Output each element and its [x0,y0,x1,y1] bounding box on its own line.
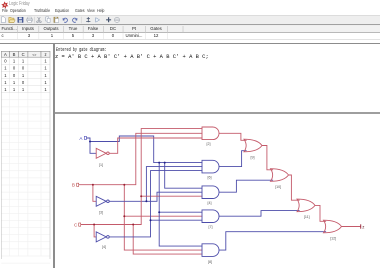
OR gate [10] [271,169,289,182]
svg-text:[1]: [1] [99,163,103,167]
toolbar [0,15,380,26]
label [11] [304,215,310,219]
circle-lines [114,17,119,22]
inverter U4 [4] (C') [96,232,109,242]
data grid [1,57,50,92]
node C-junction down-branch [132,224,134,226]
output z connector [361,224,365,229]
wire AND4 out to OR10 bottom [219,180,273,192]
node B-junction AND7 branch [123,215,125,217]
main area top border [0,43,380,44]
node A-junction branch2 [164,162,166,164]
wire A branch1 to AND7 in1 and AND8 in1 [159,163,202,247]
svg-text:[3]: [3] [99,211,103,215]
data [4,59,47,92]
wire A rail to AND6 in1 [87,136,203,163]
node B-junction down-branch [123,184,125,186]
svg-text:[2]: [2] [207,142,211,146]
inverter U1 [1] (A') [96,148,109,158]
node C'-junction AND7 branch [150,219,152,221]
wire B rail riser to AND2 in2 [79,133,203,184]
wire B' to AND4 in2 [109,192,202,201]
label [10] [275,185,281,189]
play [96,18,100,23]
undo [63,18,67,22]
svg-text:[12]: [12] [330,236,336,240]
wire OR9 out to OR10 top [262,146,273,170]
node A-junction branch1 [158,162,160,164]
AND gate [4] AB'C [202,186,219,199]
wire C' to riser and AND6 in3 [109,171,202,237]
wire A branch2 to AND4 in1 [165,163,203,189]
label [3] [99,211,103,215]
svg-text:A: A [79,136,83,141]
vertical divider between truth table pane and right pane [53,44,55,268]
wire B branch to inverter U3 input [93,185,96,202]
paste [54,17,58,22]
svg-text:[10]: [10] [275,185,281,189]
menu bar [2,10,8,15]
wire AND7 out to OR11 bottom [219,211,300,217]
title bar [0,0,380,9]
wire A branch to inverter U1 input [90,142,96,154]
AND gate [7] ABC' [202,210,219,223]
svg-text:[9]: [9] [251,156,255,160]
OR gate [12] [324,220,342,233]
copy [46,17,50,23]
AND gate [2] A'BC [202,127,219,140]
svg-text:[8]: [8] [208,260,212,264]
splitter line [55,112,380,114]
wire C' branch to AND7 in3 [151,219,203,221]
right pane text [56,48,106,53]
open [9,17,14,22]
node B-junction inverter branch [92,184,94,186]
print [27,19,33,22]
svg-text:[4]: [4] [102,245,106,249]
wire OR11 out to OR12 top [315,205,326,221]
node C-junction AND4 branch [140,195,142,197]
inverter U3 [3] (B') [96,196,109,206]
function grid value row [2,34,4,38]
svg-text:B: B [72,183,75,188]
svg-text:[7]: [7] [209,225,213,229]
header buttons [1,51,50,57]
wire AND2 out to OR9 top [219,133,247,140]
save [18,17,23,22]
label [9] [251,156,255,160]
wire A' from U1 to AND2 in3 [109,138,202,153]
input B [72,183,79,188]
separators [35,17,82,23]
OR gate [11] [297,199,315,212]
label [1] [99,163,103,167]
label [7] [209,225,213,229]
wire B down-branch to AND7 in2 and AND8 in2 [124,185,202,250]
truth table [0,0,54,268]
svg-text:z: z [362,225,364,230]
wire C down-branch to AND8 in3 [133,225,202,255]
label [6] [208,175,212,179]
node C-junction inverter branch [93,224,95,226]
wire OR10 out to OR11 top [289,175,300,200]
wire C rail riser to AND2 in1 [81,129,203,225]
gate-tool [86,17,90,22]
cut [37,17,42,23]
AND gate [6] AB'C' [202,160,219,173]
label [8] [208,260,212,264]
node A-junction AND7 in1 [158,211,160,213]
OR gate [9] [244,139,262,152]
wire B' branch to AND6 in2 [146,167,202,202]
wire C branch to AND4 in3 [141,195,202,197]
node B'-junction [145,200,147,202]
wire AND6 out to OR9 bottom [219,151,247,167]
svg-text:[4]: [4] [208,201,212,205]
plus [106,17,111,22]
node A-junction at inverter branch [89,141,91,143]
label [4] [208,201,212,205]
function grid header [0,26,380,33]
label [12] [330,236,336,240]
faint empty grid [1,93,50,263]
new [1,17,5,23]
AND gate [8] ABC [202,244,219,257]
input C [74,222,81,227]
input A [79,136,86,141]
svg-text:[6]: [6] [208,175,212,179]
wire AND8 out to OR12 bottom [219,232,326,250]
wire C branch to inverter U4 input [94,225,96,237]
wire OR12 out to output z [342,226,361,228]
svg-text:[11]: [11] [304,215,310,219]
label [2] [207,142,211,146]
redo [73,18,77,22]
svg-text:C: C [74,222,78,227]
label [4] [102,245,106,249]
